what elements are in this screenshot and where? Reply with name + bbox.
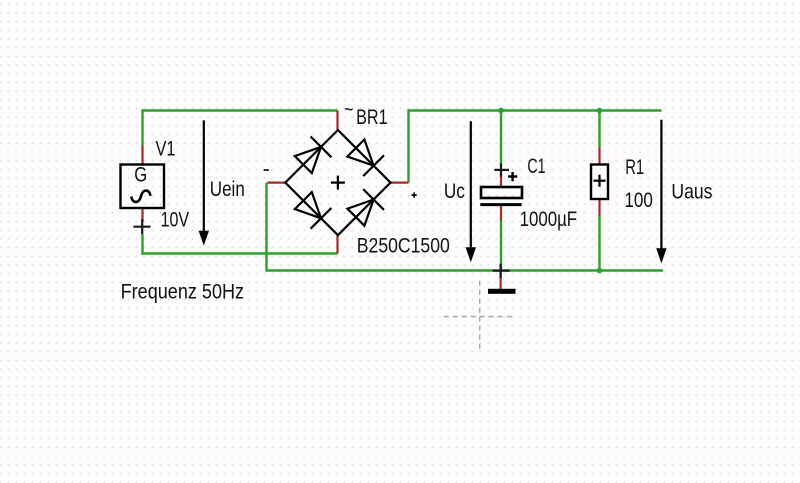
svg-text:B250C1500: B250C1500 (357, 235, 450, 258)
V1 plus terminal cross (133, 219, 150, 234)
bridge rectifier BR1 diamond (285, 130, 390, 235)
BR1 minus pin label (264, 169, 269, 171)
svg-text:Uc: Uc (444, 180, 465, 203)
junction node at R1 top (597, 108, 603, 114)
ground symbol bar (488, 289, 516, 294)
svg-text:V1: V1 (156, 138, 176, 161)
arrow Uaus (657, 120, 666, 262)
wire top rail from V1 to BR1 AC top (143, 111, 338, 146)
capacitor C1 bottom plate (480, 203, 521, 206)
svg-text:10V: 10V (161, 209, 190, 232)
pin stub C1 top (500, 174, 502, 188)
junction node at R1 bottom (597, 268, 603, 274)
wire R1 top (598, 111, 600, 148)
svg-text:Uaus: Uaus (671, 180, 712, 203)
pin stub V1 top (141, 146, 143, 166)
arrow Uein (199, 120, 208, 244)
pin stub BR1 bottom (336, 235, 338, 253)
diode BR1 bottom-right (347, 189, 384, 226)
diode BR1 top-left (295, 137, 332, 174)
diode BR1 top-right (347, 140, 384, 177)
pin stub R1 top (598, 148, 600, 166)
resistor R1 body (591, 165, 608, 200)
svg-text:1000µF: 1000µF (520, 208, 578, 231)
pin stub V1 bottom (141, 208, 143, 222)
wire BR1 minus terminal to ground rail (267, 183, 664, 271)
pin stub C1 bottom (500, 205, 502, 221)
wire BR1 plus terminal to top right rail (409, 111, 662, 183)
V1 sine symbol (131, 191, 150, 202)
ground node cross (493, 264, 510, 279)
pin stub BR1 left (268, 182, 286, 184)
svg-text:G: G (134, 164, 147, 187)
voltage source V1 body (121, 165, 165, 209)
svg-text:C1: C1 (527, 155, 545, 178)
R1 center cross (594, 175, 606, 187)
BR1 center plus mark (331, 176, 345, 190)
capacitor C1 node cross (494, 164, 509, 177)
svg-text:Uein: Uein (210, 178, 245, 201)
svg-text:R1: R1 (625, 156, 644, 179)
C1 polarity plus (508, 172, 517, 181)
wire R1 bottom (598, 216, 600, 271)
dashed crosshair cursor (444, 281, 513, 350)
svg-text:Frequenz 50Hz: Frequenz 50Hz (121, 281, 245, 304)
diode BR1 bottom-left (295, 192, 332, 229)
wire V1 bottom to BR1 AC bottom (143, 234, 338, 254)
wire C1 top (500, 111, 502, 166)
arrow Uc (466, 121, 475, 260)
wire C1 bottom (500, 221, 502, 271)
svg-text:BR1: BR1 (356, 106, 388, 129)
pin stub BR1 right (391, 182, 409, 184)
capacitor C1 top plate (481, 187, 522, 198)
pin stub R1 bottom (598, 199, 600, 216)
svg-text:100: 100 (624, 189, 653, 212)
BR1 plus pin label (411, 192, 416, 197)
pin stub BR1 top (336, 111, 338, 131)
junction node at C1 top (498, 108, 504, 114)
svg-text:~: ~ (344, 99, 353, 122)
pin stub ground (500, 272, 502, 289)
